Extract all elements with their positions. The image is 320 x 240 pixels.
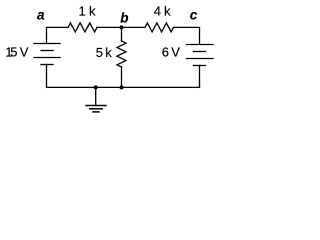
- ground bar 2: [90, 108, 103, 110]
- svg-text:4: 4: [154, 4, 161, 19]
- svg-text:5: 5: [10, 45, 17, 60]
- wire node b down to 5k: [121, 27, 123, 41]
- wire top-left from node a corner to 1k: [47, 27, 69, 43]
- svg-text:1: 1: [79, 4, 86, 19]
- battery V2 bottom stub: [199, 66, 201, 88]
- svg-text:k: k: [105, 45, 112, 60]
- 5k bottom junction dot: [120, 85, 124, 89]
- bottom wire: [47, 86, 200, 88]
- svg-text:a: a: [37, 8, 45, 23]
- svg-text:k: k: [89, 4, 96, 19]
- svg-text:b: b: [120, 11, 128, 26]
- battery V1 inter-plate stubs: [46, 65, 48, 88]
- svg-text:V: V: [171, 45, 180, 60]
- svg-text:c: c: [190, 7, 198, 22]
- resistor R3 5k: [117, 41, 126, 67]
- wire 4k to node c corner down to 6V battery: [174, 27, 200, 44]
- ground stem: [95, 87, 97, 105]
- wire 1k to 4k through node b: [97, 26, 145, 28]
- battery V2 6V plates: [187, 44, 214, 46]
- wire 5k to bottom wire: [121, 67, 123, 87]
- svg-text:6: 6: [162, 45, 169, 60]
- resistor R2 4k: [145, 23, 174, 32]
- battery V1 15V plates: [34, 43, 60, 45]
- node b junction dot: [120, 25, 124, 29]
- ground junction dot: [94, 85, 98, 89]
- svg-text:V: V: [20, 45, 29, 60]
- ground bar 3: [93, 111, 99, 113]
- resistor R1 1k: [68, 23, 97, 32]
- svg-text:5: 5: [96, 45, 103, 60]
- ground bar 1: [86, 105, 106, 107]
- svg-text:k: k: [164, 4, 171, 19]
